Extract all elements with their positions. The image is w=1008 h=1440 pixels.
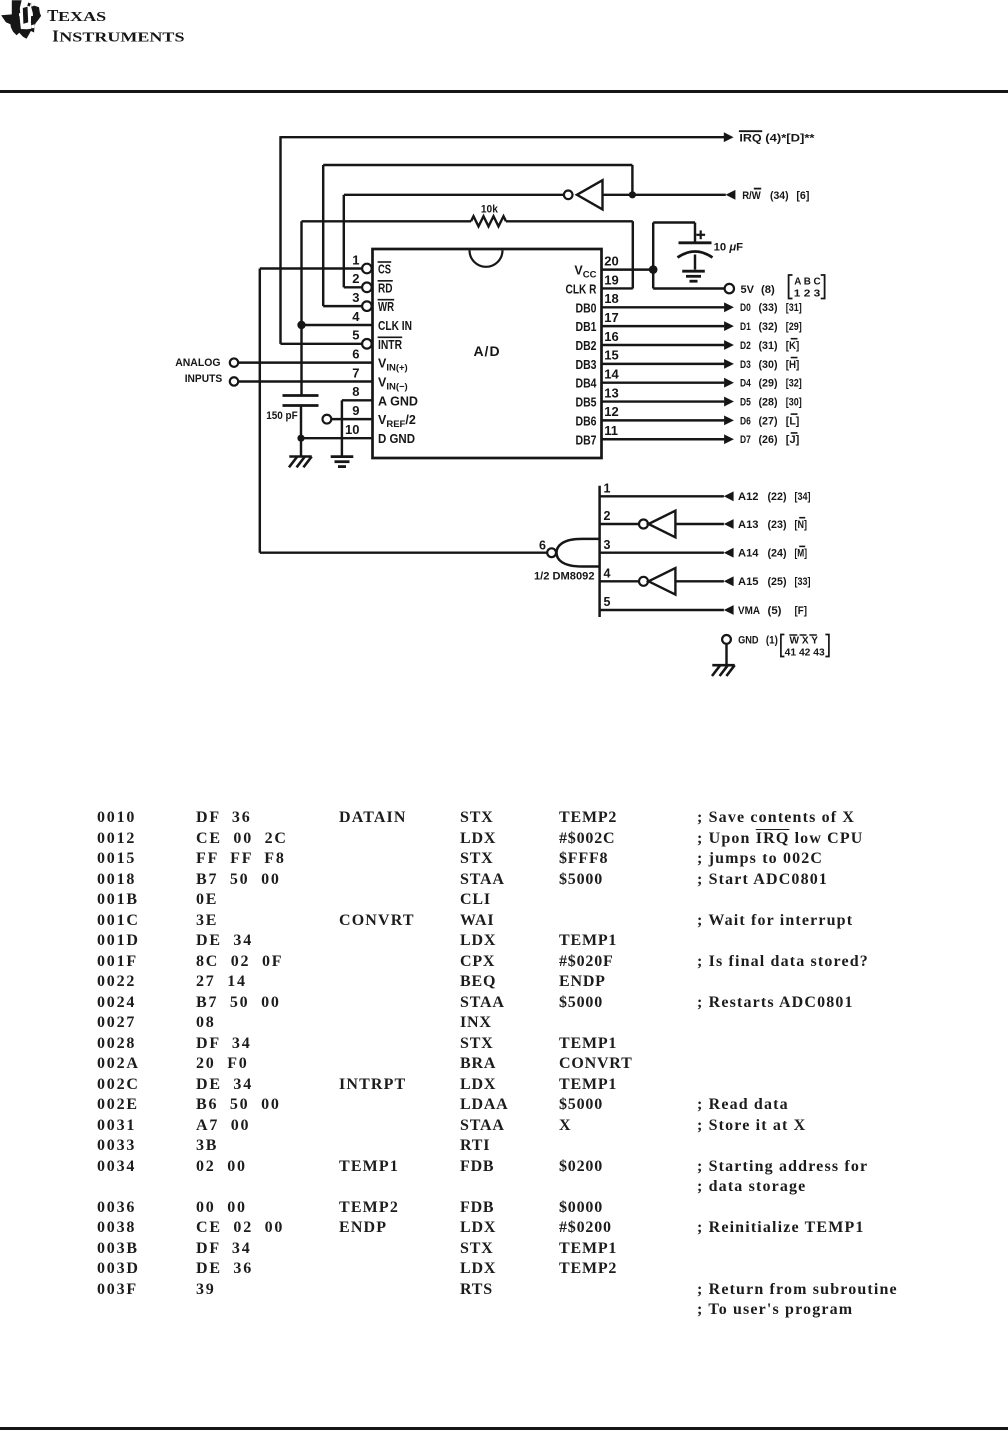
inverter U2 bubble (564, 191, 573, 200)
D3 arrow (724, 359, 734, 369)
wire 10uF bottom lead (694, 255, 696, 270)
wire 10k to CLK IN / cap vertical (300, 221, 302, 395)
wire RD vertical (343, 195, 345, 288)
inverter triangle A13 (649, 511, 676, 538)
TI logo (0, 0, 200, 50)
gate U3 1/2 DM8092 body (557, 539, 600, 567)
bottom rule (0, 1427, 1008, 1430)
pin 3 WR bubble (362, 301, 372, 311)
wire 5V (653, 287, 724, 289)
inverter bubble A13 (639, 520, 648, 529)
capacitor C1 150 pF (283, 394, 319, 397)
capacitor C2 10 uF plus plate (679, 241, 712, 244)
wire to 10uF top (653, 221, 695, 223)
wire VIN(-) (238, 380, 372, 382)
junction D GND (297, 435, 304, 442)
TI bug symbol: Texas state map (1, 0, 41, 39)
gate U3 output bubble (547, 548, 556, 557)
wire CS to gate vertical (259, 269, 261, 553)
wire inverter input from R/W (603, 194, 726, 196)
inverter bubble A15 (639, 577, 648, 586)
capacitor C2 plus sign (696, 234, 705, 236)
D1 arrow (724, 321, 734, 331)
terminal VREF/2 (323, 415, 332, 424)
wire junction up (631, 165, 633, 195)
wire 10uF top lead (694, 223, 696, 243)
wire DB7 to D7 (602, 438, 725, 440)
D6 arrow (724, 416, 734, 426)
node 5V bracket A B C / 1 2 3 (789, 275, 793, 299)
wire bus line 1 to A12 (600, 495, 724, 497)
A15 arrow (724, 576, 734, 586)
wire VCC stub (602, 268, 654, 270)
wire DB4 to D4 (602, 381, 725, 383)
wire cap bottom lead (300, 406, 302, 439)
D5 arrow (724, 397, 734, 407)
wire 10k left segment (302, 220, 472, 222)
A12 arrow (724, 491, 734, 501)
ground earth below 10 uF (682, 271, 705, 281)
white gulf bay notch (31, 24, 35, 28)
wire DB1 to D1 (602, 325, 725, 327)
white t carved with crossbar and tail (19, 0, 33, 29)
D4 arrow (724, 378, 734, 388)
op-amp U1 A/D converter ADC0801 chip body (373, 249, 602, 458)
D0 arrow (724, 302, 734, 312)
wire CS horizontal (260, 267, 362, 269)
wire RD stub (344, 286, 362, 288)
terminal GND (722, 635, 731, 644)
wire VCC vertical (652, 223, 654, 289)
wire DB2 to D2 (602, 344, 725, 346)
wire bus line 4 to A15 (600, 580, 639, 582)
wire DB0 to D0 (602, 306, 725, 308)
R/W arrow (726, 190, 736, 200)
resistor R1 10k (471, 216, 506, 226)
wire D GND stub (301, 437, 373, 439)
wire WR stub (323, 305, 362, 307)
wire VIN(+) (238, 361, 372, 363)
wire to analog ground (300, 438, 302, 456)
wire 10k to CLK R vertical (632, 221, 634, 288)
wire bus line 5 to VMA (600, 609, 724, 611)
schematic SVG placeholder (0, 0, 1008, 745)
wire INTR stub (281, 343, 363, 345)
wire bus line 2 to A13 (600, 523, 639, 525)
wire address bus vertical (598, 486, 601, 617)
junction CLK IN (297, 321, 305, 329)
wire 10k right segment (506, 220, 633, 222)
terminal analog input VIN(-) (230, 377, 238, 385)
A13 arrow (724, 519, 734, 529)
ground chassis below GND terminal (712, 665, 735, 676)
ground earth below A GND (331, 457, 354, 467)
VMA arrow (724, 605, 734, 615)
wire GND lead (725, 644, 727, 665)
D2 arrow (724, 340, 734, 350)
pin 2 RD bubble (362, 283, 372, 293)
capacitor C2 curved plate (678, 252, 713, 258)
inverter U2 triangle (577, 180, 603, 209)
top rule (0, 90, 1008, 93)
inverter triangle A15 (649, 568, 676, 595)
wire CLK R stub (602, 287, 633, 289)
wire DB6 to D6 (602, 419, 725, 421)
wire IRQ/INTR vertical (279, 136, 281, 344)
wire gate output (260, 551, 548, 553)
ground chassis below 150 pF (289, 457, 312, 468)
pin 1 CS bubble (362, 264, 372, 274)
junction VCC (649, 265, 658, 274)
wire DB5 to D5 (602, 400, 725, 402)
wire inverter output to RD (344, 194, 564, 196)
pin 5 INTR bubble (362, 339, 372, 349)
wire DB3 to D3 (602, 363, 725, 365)
D7 arrow (724, 434, 734, 444)
A14 arrow (724, 548, 734, 558)
black i dot (27, 3, 31, 7)
junction R/W (629, 191, 636, 198)
node GND bracket W X Y / 41 42 43 (781, 635, 785, 657)
wire to WR horizontal (323, 164, 632, 166)
IRQ arrow (724, 132, 734, 142)
wire IRQ horizontal (281, 136, 725, 138)
wire CLK IN stub (302, 324, 373, 326)
chip top notch (470, 250, 503, 266)
terminal 5V (725, 284, 734, 293)
wire A GND vertical (341, 400, 343, 456)
wordmark TEXAS (47, 6, 184, 46)
terminal analog input VIN(+) (230, 358, 238, 366)
black i stem (23, 7, 28, 24)
wire bus line 3 to A14 (600, 551, 724, 553)
wire WR vertical (322, 165, 324, 306)
wire A GND stub (342, 399, 373, 401)
wire VREF/2 stub (331, 418, 372, 420)
